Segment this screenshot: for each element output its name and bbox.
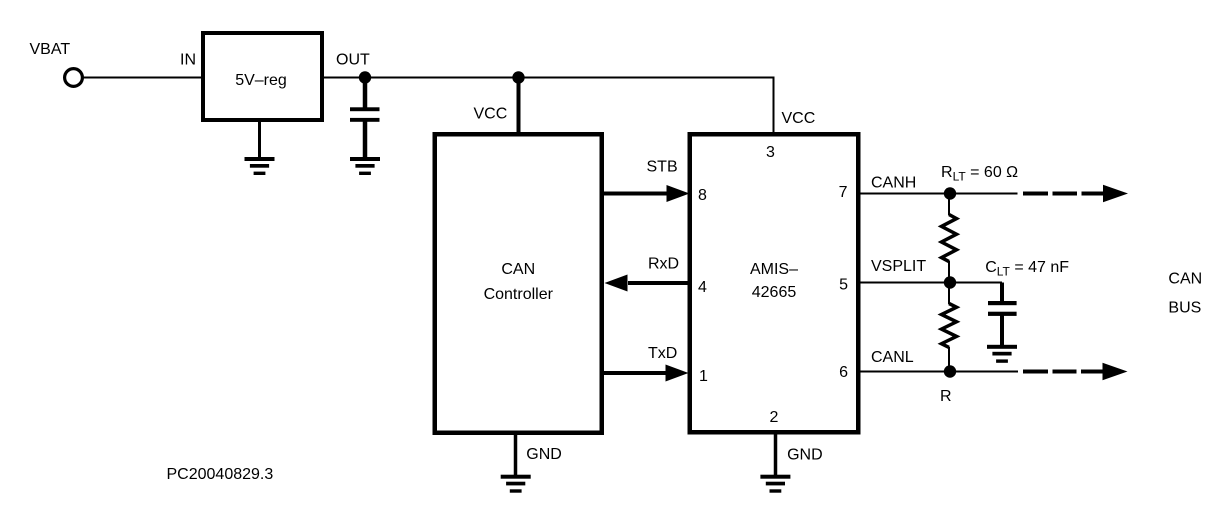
svg-text:STB: STB (647, 159, 678, 176)
svg-text:4: 4 (698, 279, 707, 296)
svg-text:TxD: TxD (648, 345, 677, 362)
svg-text:6: 6 (839, 364, 848, 381)
svg-text:2: 2 (770, 409, 779, 426)
svg-text:7: 7 (839, 184, 848, 201)
svg-text:VCC: VCC (474, 106, 508, 123)
svg-text:BUS: BUS (1168, 300, 1201, 317)
svg-text:OUT: OUT (336, 52, 370, 69)
svg-text:8: 8 (698, 187, 707, 204)
svg-text:CAN: CAN (501, 261, 535, 278)
svg-text:GND: GND (526, 446, 562, 463)
svg-text:CAN: CAN (1168, 271, 1202, 288)
svg-text:CANL: CANL (871, 349, 914, 366)
svg-text:5: 5 (839, 277, 848, 294)
svg-text:Controller: Controller (484, 286, 554, 303)
svg-text:GND: GND (787, 447, 823, 464)
svg-text:VCC: VCC (782, 110, 816, 127)
svg-text:RxD: RxD (648, 255, 679, 272)
svg-text:PC20040829.3: PC20040829.3 (167, 466, 274, 483)
svg-text:1: 1 (699, 368, 708, 385)
svg-text:VSPLIT: VSPLIT (871, 258, 926, 275)
svg-text:3: 3 (766, 144, 775, 161)
svg-text:VBAT: VBAT (30, 41, 71, 58)
svg-text:42665: 42665 (752, 284, 797, 301)
svg-text:5V–reg: 5V–reg (235, 72, 287, 89)
svg-text:AMIS–: AMIS– (750, 261, 798, 278)
svg-text:R: R (940, 388, 952, 405)
svg-text:CANH: CANH (871, 175, 916, 192)
svg-text:IN: IN (180, 52, 196, 69)
